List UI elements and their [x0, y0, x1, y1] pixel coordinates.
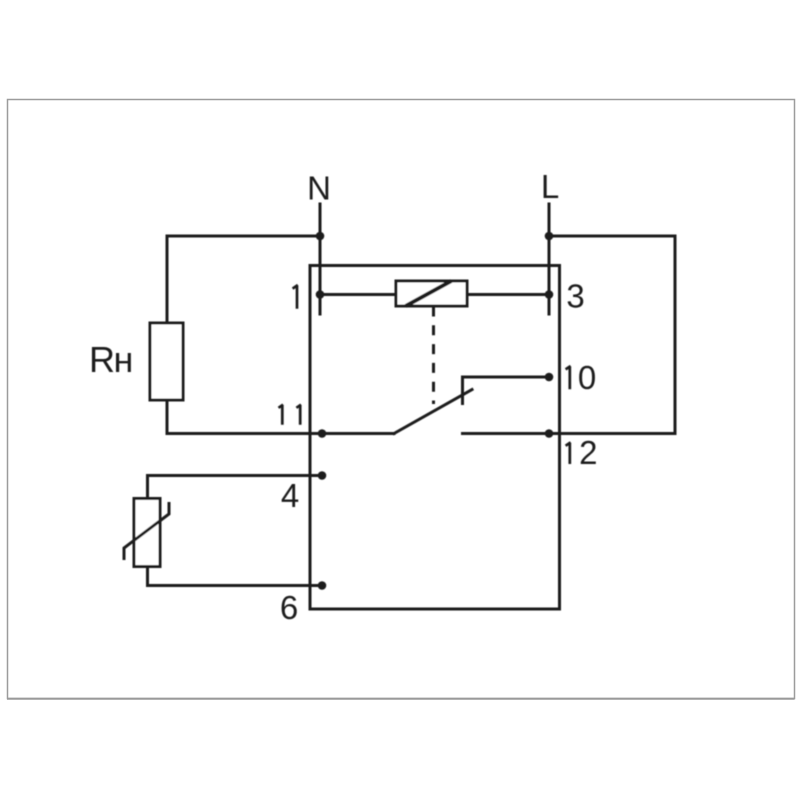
- svg-text:N: N: [307, 170, 331, 207]
- svg-text:н: н: [114, 339, 134, 380]
- svg-text:3: 3: [566, 278, 584, 315]
- svg-text:R: R: [89, 339, 115, 380]
- svg-text:2: 2: [579, 434, 597, 471]
- svg-text:L: L: [541, 168, 559, 205]
- svg-text:0: 0: [578, 359, 596, 396]
- svg-text:4: 4: [281, 477, 299, 514]
- svg-text:6: 6: [280, 589, 298, 626]
